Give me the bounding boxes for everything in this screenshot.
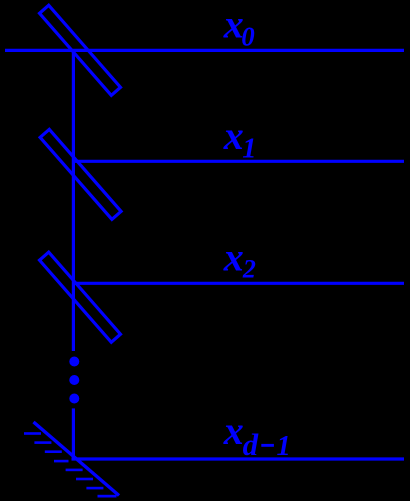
wire vertical beam (upper segment) bbox=[72, 50, 75, 351]
wire x0 (top horizontal beam line) bbox=[5, 49, 404, 52]
svg-text:1: 1 bbox=[242, 133, 256, 164]
mirror hatch 3 bbox=[45, 450, 62, 453]
mirror hatch 2 bbox=[34, 441, 51, 444]
label xd-1 bbox=[223, 408, 291, 462]
mirror M (diagonal face) bbox=[34, 422, 120, 496]
wire x2 (third horizontal beam line) bbox=[73, 282, 404, 285]
ellipsis dot 1 bbox=[69, 357, 79, 367]
label x0 bbox=[223, 2, 256, 52]
beam splitter BS3 bbox=[40, 252, 121, 342]
mirror hatch 5 bbox=[66, 469, 83, 472]
svg-text:x: x bbox=[223, 408, 244, 453]
beam splitter BS1 bbox=[40, 5, 121, 95]
mirror hatch 8 bbox=[98, 495, 117, 498]
beam splitter BS2 bbox=[40, 129, 121, 219]
wire xd-1 (bottom horizontal beam line) bbox=[72, 457, 405, 460]
svg-text:x: x bbox=[223, 113, 244, 158]
mirror hatch 7 bbox=[86, 487, 103, 490]
label x1 bbox=[223, 113, 257, 164]
svg-text:1: 1 bbox=[277, 431, 291, 462]
mirror hatch 1 bbox=[24, 432, 41, 435]
mirror hatch 4 bbox=[54, 460, 69, 463]
svg-text:2: 2 bbox=[242, 255, 256, 284]
ellipsis dot 3 bbox=[69, 394, 79, 404]
wire x1 (second horizontal beam line) bbox=[73, 160, 404, 163]
label x2 bbox=[223, 235, 256, 284]
svg-text:x: x bbox=[223, 235, 244, 280]
mirror hatch 6 bbox=[76, 478, 93, 481]
wire vertical beam (lower segment) bbox=[72, 408, 75, 458]
svg-text:d: d bbox=[243, 427, 259, 462]
ellipsis dot 2 bbox=[69, 375, 79, 385]
svg-text:0: 0 bbox=[241, 22, 255, 52]
